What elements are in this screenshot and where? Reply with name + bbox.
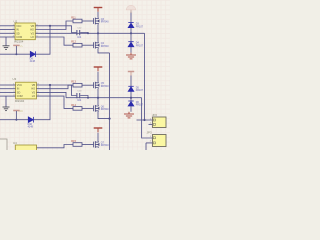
junction dot node1/diode leg [130,32,132,34]
transistor Q6 [93,105,99,112]
wire IC1 left pin4 COM [0,36,15,38]
svg-text:VS: VS [31,32,35,35]
svg-text:LO: LO [31,36,34,39]
svg-text:SD: SD [17,92,21,95]
wire node to connector JP2 [145,33,153,120]
svg-text:SD: SD [16,32,20,35]
capacitor C12 [77,30,80,35]
svg-text:R12: R12 [71,40,76,44]
ground COM2 [3,107,10,111]
wire JP2 pin2 stub [149,123,153,125]
svg-text:LO: LO [32,95,35,98]
wire HO2 pin [36,85,73,89]
wire M3 source to node2 [97,89,99,98]
junction dot VB2/bootstrap [49,84,51,86]
svg-text:HO: HO [31,88,35,91]
junction dot VB1/bootstrap [49,25,51,27]
power bar VCC M1 [94,8,103,12]
diode D4 [128,101,134,106]
wire bootstrap rail 2 [0,119,28,121]
junction dot node1/mosfet leg [97,32,99,34]
ground COM1 [3,46,10,50]
wire VB2 pin [36,85,76,96]
svg-text:FR107: FR107 [136,89,144,92]
wire R3 to M3 gate [82,84,93,86]
svg-text:JP2: JP2 [152,113,157,117]
svg-text:U4: U4 [13,141,17,145]
wire D3 to node2 [130,92,132,102]
svg-text:COM: COM [16,36,22,39]
wire JP3 pin2 stub [146,143,153,150]
wire JP2 pin1 tail [137,119,145,121]
junction dot node2/cap [87,97,89,99]
wire R1 to M1 gate [82,20,93,22]
wire node2 to connector JP3 [142,98,153,138]
wire bootstrap diode1 to VB [36,26,50,54]
power bar VCC diode leg2 [128,72,134,76]
svg-text:U3: U3 [13,77,17,81]
svg-text:VCC: VCC [17,84,22,87]
wire VS node line [35,32,144,34]
junction dot vcc tee2/bootstrap rail [15,119,17,121]
resistor R12 [73,43,82,47]
wire bootstrap rail 1 [0,53,30,55]
transistor Q3 [93,18,99,25]
IC U3 IR2104 [13,82,39,99]
svg-text:IRF540: IRF540 [101,108,110,111]
svg-text:104: 104 [77,36,82,39]
wire diode leg top [130,12,132,23]
resistor R15 [73,143,82,147]
wire D2 to ground [130,47,132,53]
capacitor C13 [77,93,80,98]
connector P? bottom-left partial [0,139,7,152]
wire bootstrap diode2 to VB2 [34,85,50,120]
junction dot node1/cap [87,32,89,34]
wire COM to ground [5,37,7,46]
wire LO pin [35,37,73,45]
wire diode leg2 top [130,76,132,87]
ground red diode leg2 [124,112,134,118]
svg-text:IN: IN [16,29,19,32]
diode D3 [128,86,134,91]
wire IC2 left pin3 SD [0,91,16,93]
svg-text:R14: R14 [71,103,76,107]
junction dot node2/mosfet leg [97,97,99,99]
svg-text:4148: 4148 [30,60,36,63]
transistor Q4 [93,42,99,49]
transistor Q5 [93,82,99,89]
junction dot node2/diode leg [130,97,132,99]
resistor R14 [73,107,82,111]
wire IC2 left pin1 VCC [0,84,16,86]
wire IC1 left pin3 SD [0,32,15,34]
svg-text:104: 104 [77,99,82,102]
svg-text:COM: COM [17,95,23,98]
diode D1 [128,23,134,28]
diode D2 [128,42,134,47]
junction dot vcc tee1/bootstrap rail [15,53,17,55]
wire D1 to node [130,28,132,42]
IC U4 IR2104 partial [15,145,36,157]
wire cap C13 to node2 [80,96,88,98]
wire node to M2 drain [97,33,99,42]
wire R2 to M2 gate [82,44,93,46]
wire IC1 left pin1 VCC [0,25,15,27]
IC U2 IR2104 [13,23,39,40]
diode D9 bootstrap1 [30,51,35,57]
svg-text:FR107: FR107 [136,104,144,107]
wire R5 to M5 gate [82,144,93,146]
svg-text:VCC: VCC [16,25,21,28]
wire M2 source [98,49,110,53]
svg-text:JP3: JP3 [147,130,152,134]
svg-text:IN: IN [17,88,20,91]
svg-text:IRF540: IRF540 [101,45,110,48]
svg-text:IRF540: IRF540 [101,85,110,88]
wire VCC to M3 drain [97,72,99,82]
diode D10 bootstrap2 [28,117,33,123]
svg-text:VB: VB [32,84,36,87]
wire node2 line [66,97,142,99]
svg-text:4148: 4148 [28,125,34,128]
resistor R13 [73,83,82,87]
svg-text:HO: HO [30,29,34,32]
wire COM2 to ground [5,96,7,107]
svg-text:R15: R15 [71,139,76,143]
wire shunt vertical [109,53,111,150]
wire IC2 left pin2 IN [0,88,16,90]
svg-text:R13: R13 [71,80,76,84]
svg-text:FR107: FR107 [136,44,144,47]
wire node2 to M4 drain [97,98,99,105]
power bar VCC M5 [94,128,103,132]
wire IC1 left pin2 IN [0,29,15,31]
junction dot JP2 pin1 [143,119,145,121]
svg-text:VB: VB [31,25,35,28]
ground red diode leg1 [126,53,136,59]
svg-text:IR2104: IR2104 [15,99,25,103]
wire VS2 to node2 [36,92,66,97]
junction dot shunt/M4 source [108,118,110,120]
wire LO2 pin [36,96,73,108]
wire HO pin [35,21,73,30]
svg-text:IRF540: IRF540 [101,144,110,147]
power bar VCC bootstrap1 [13,44,19,46]
wire IC3 to R5 [37,145,74,148]
wire M4 source to shunt [98,112,110,119]
resistor R11 [73,19,82,23]
wire R4 to M4 gate [82,107,93,109]
svg-text:IRF540: IRF540 [101,21,110,24]
wire M1 source to node [97,24,99,33]
wire VB pin [35,26,76,33]
wire cap C12 to node [80,32,88,35]
svg-text:FR107: FR107 [136,25,144,28]
svg-text:IR2104: IR2104 [14,40,24,44]
power bar VCC M3 [94,67,103,71]
power bar VCC bootstrap2 [13,110,19,112]
connector JP3 [150,135,166,147]
wire D4 to ground2 [130,106,132,112]
connector JP2 [150,117,166,128]
wire IC2 left pin4 COM [0,95,16,97]
svg-text:VS: VS [32,92,36,95]
svg-text:U2: U2 [14,19,18,23]
svg-text:R11: R11 [71,16,76,20]
transistor Q7 [93,141,99,148]
wire VCC to M1 drain [97,12,99,18]
wire VCC to M5 drain [97,133,99,142]
power port VCC diode leg1 [126,5,136,13]
background grid [0,0,170,150]
